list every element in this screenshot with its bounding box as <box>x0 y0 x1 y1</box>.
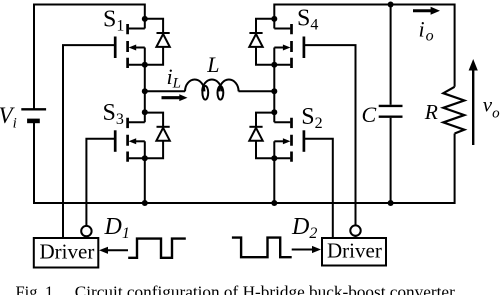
wire: capacitor branch bottom <box>390 118 392 203</box>
svg-text:S4: S4 <box>297 5 318 33</box>
svg-text:D2: D2 <box>291 214 317 242</box>
node: capacitor bottom junction <box>388 200 394 206</box>
svg-text:Driver: Driver <box>40 239 95 263</box>
svg-text:1: 1 <box>45 283 53 295</box>
svg-text:iL: iL <box>167 64 181 92</box>
diode D(S1) body diode <box>145 19 170 65</box>
svg-text:R: R <box>424 100 438 124</box>
node: S1 source junction <box>142 62 148 68</box>
driver box right <box>322 238 386 266</box>
diode D(S4) body diode <box>249 19 274 65</box>
wire: inductor left lead from left midpoint <box>145 90 185 92</box>
node: S3 drain junction <box>142 109 148 115</box>
svg-text:S2: S2 <box>301 104 322 132</box>
node: S4 drain junction <box>271 16 277 22</box>
wire: left leg middle (S1 body/source down to S3 drain stub) <box>144 48 146 123</box>
gate drive isolation ring (right) <box>350 225 360 235</box>
svg-text:S3: S3 <box>103 100 124 128</box>
node: S4 source junction <box>271 62 277 68</box>
svg-text:Driver: Driver <box>327 239 382 263</box>
svg-text:Vi: Vi <box>0 103 17 132</box>
svg-text:C: C <box>362 102 377 127</box>
wire: bottom bus <box>34 123 455 203</box>
node: left leg midpoint (inductor tap) <box>142 88 148 94</box>
svg-text:Fig.: Fig. <box>16 283 42 295</box>
wire: right leg lower (S2 body/source down to bottom bus) <box>273 141 275 203</box>
transistor S2 (N-MOSFET, right-facing) <box>274 118 304 162</box>
node: S3 source junction <box>142 155 148 161</box>
svg-text:io: io <box>419 17 434 45</box>
gate drive isolation ring (left) <box>81 226 91 236</box>
svg-text:vo: vo <box>483 92 500 121</box>
arrow: D1 pulse into left driver <box>99 247 128 254</box>
resistor R zigzag <box>443 87 464 134</box>
wire: right leg middle (S4 body/source down to S2 drain stub) <box>273 48 275 123</box>
svg-text:D1: D1 <box>104 214 130 242</box>
battery Vi <box>21 109 46 121</box>
transistor S3 (N-MOSFET, left-facing) <box>115 118 145 162</box>
wire: top bus right segment (S4 drain to R top) <box>274 5 454 87</box>
transistor S4 (N-MOSFET, right-facing) <box>274 24 304 68</box>
diode D(S3) body diode <box>145 113 170 159</box>
transistor S1 (N-MOSFET, left-facing) <box>115 24 145 68</box>
waveform: D1 gating square wave <box>128 239 186 258</box>
wire: inductor right lead to right midpoint <box>239 90 275 92</box>
inductor L coil <box>185 80 239 100</box>
node: S2 source junction <box>271 155 277 161</box>
node: S2 drain junction <box>271 109 277 115</box>
wire: top bus left segment (Vi+ to S1 drain) <box>34 5 145 109</box>
wire: left leg lower (S3 body/source down to bottom bus) <box>144 141 146 203</box>
node: right leg midpoint (inductor tap) <box>271 88 277 94</box>
arrow: output current io <box>413 7 440 15</box>
arrow: output voltage vo <box>469 59 478 145</box>
waveform: D2 gating square wave <box>232 238 292 258</box>
svg-text:L: L <box>206 52 219 77</box>
node: capacitor top junction <box>388 2 394 8</box>
diode D(S2) body diode <box>249 113 274 159</box>
driver box left <box>34 238 99 268</box>
svg-text:S1: S1 <box>103 6 124 34</box>
svg-text:Circuit configuration of H-bri: Circuit configuration of H-bridge buck-b… <box>75 283 456 295</box>
wire: S3 gate to left driver <box>86 139 114 238</box>
arrow: inductor current iL <box>162 94 188 101</box>
capacitor C plates <box>379 106 403 117</box>
node: right leg bottom junction <box>271 200 277 206</box>
node: S1 drain junction <box>142 16 148 22</box>
node: left leg bottom junction <box>142 200 148 206</box>
wire: S1 gate to left driver <box>63 45 114 238</box>
wire: S2 gate to right driver <box>304 139 333 238</box>
wire: capacitor branch top <box>390 5 392 105</box>
arrow: D2 pulse into right driver <box>292 246 321 253</box>
wire: S4 gate to right driver <box>304 45 355 238</box>
